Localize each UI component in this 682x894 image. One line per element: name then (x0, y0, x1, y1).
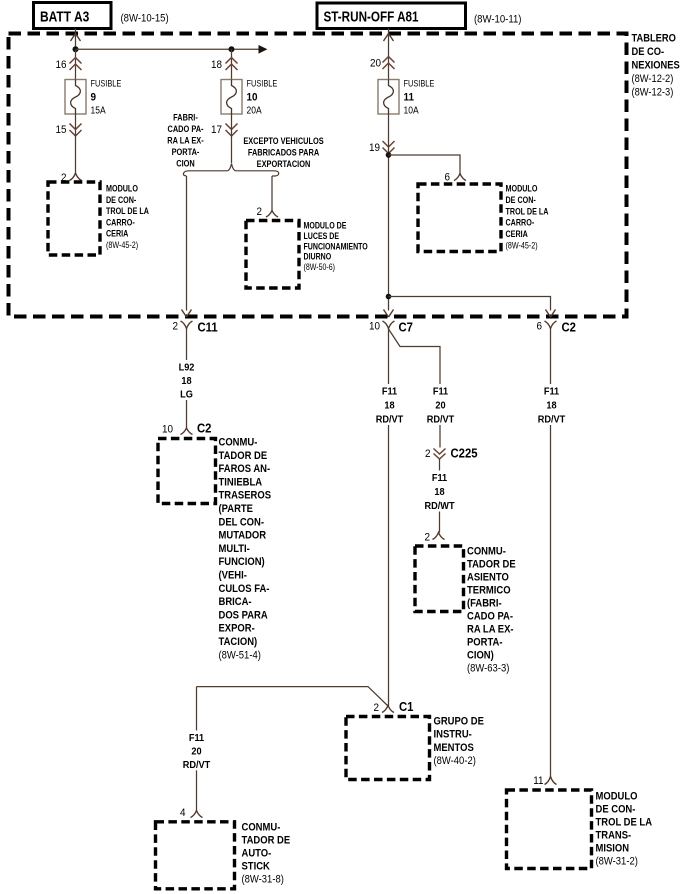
svg-text:CADO PA-: CADO PA- (167, 123, 203, 134)
svg-text:11: 11 (533, 776, 543, 788)
pin 16 (55, 58, 81, 72)
svg-text:CONMU-: CONMU- (242, 822, 281, 834)
svg-text:(8W-51-4): (8W-51-4) (219, 650, 261, 662)
svg-text:CULOS FA-: CULOS FA- (219, 583, 270, 595)
connector box BATT A3 (34, 3, 112, 29)
svg-text:20: 20 (191, 746, 201, 757)
pin 2 heated seat switch (424, 532, 444, 544)
pin 18 (211, 58, 238, 72)
svg-text:C1: C1 (399, 699, 414, 714)
svg-text:FUSIBLE: FUSIBLE (247, 78, 278, 89)
arrow into junction block from ST-RUN-OFF (384, 34, 394, 42)
connector C2 fog lamp switch pin 10 (162, 421, 212, 436)
junction dot right BCM tap (386, 152, 392, 158)
svg-text:F11: F11 (432, 473, 448, 484)
svg-text:18: 18 (434, 487, 445, 498)
module box MODULO DE LUCES DIURNO (246, 221, 299, 289)
svg-text:6: 6 (444, 172, 450, 184)
label TABLERO DE CONEXIONES (632, 33, 680, 99)
svg-text:11: 11 (404, 92, 415, 104)
wire branch to connector C2 right (389, 297, 551, 311)
label fabricado para la exportacion (167, 112, 204, 169)
svg-text:EXPOR-: EXPOR- (219, 623, 255, 635)
svg-text:2: 2 (424, 532, 430, 544)
svg-text:PORTA-: PORTA- (172, 146, 200, 157)
svg-text:RA LA EX-: RA LA EX- (167, 135, 204, 146)
svg-text:TADOR DE: TADOR DE (219, 450, 268, 462)
svg-text:MULTI-: MULTI- (219, 543, 250, 555)
svg-text:STICK: STICK (242, 861, 271, 873)
svg-text:RD/WT: RD/WT (424, 501, 454, 512)
svg-text:C225: C225 (451, 446, 478, 461)
svg-text:(8W-40-2): (8W-40-2) (434, 755, 476, 767)
svg-text:PORTA-: PORTA- (467, 637, 503, 649)
svg-text:DE CON-: DE CON- (106, 195, 137, 205)
wire branch to right BCM pin 6 (389, 155, 461, 174)
label grupo de instrumentos (434, 716, 485, 767)
svg-text:DE CON-: DE CON- (596, 804, 636, 816)
wire C2 to transmission control module (550, 329, 552, 777)
wire autostick vertical (196, 687, 198, 811)
module box GRUPO DE INSTRUMENTOS (346, 717, 430, 780)
pin 17 (211, 124, 238, 137)
svg-text:LUCES DE: LUCES DE (304, 231, 340, 241)
svg-text:10A: 10A (404, 105, 420, 116)
svg-text:F11: F11 (189, 733, 205, 744)
svg-text:20: 20 (370, 58, 381, 70)
svg-text:C2: C2 (562, 320, 577, 335)
wire fuse F9 to body control module (75, 114, 77, 173)
svg-text:10: 10 (162, 424, 173, 436)
svg-text:20A: 20A (247, 105, 263, 116)
svg-text:6: 6 (536, 321, 542, 333)
svg-text:L92: L92 (179, 362, 195, 373)
svg-text:(FABRI-: (FABRI- (467, 598, 502, 610)
svg-text:CION): CION) (467, 650, 494, 662)
svg-text:FUNCION): FUNCION) (219, 557, 265, 569)
svg-text:9: 9 (91, 92, 97, 104)
svg-text:BATT A3: BATT A3 (40, 8, 90, 25)
svg-text:RD/VT: RD/VT (376, 414, 404, 425)
pin 2 left body control module (61, 173, 82, 185)
wire export branch to C11 (186, 176, 188, 311)
pin 15 (55, 124, 81, 137)
label modulo de control de la transmision (596, 791, 653, 868)
svg-text:18: 18 (181, 376, 192, 387)
svg-text:RA LA EX-: RA LA EX- (467, 624, 514, 636)
svg-text:FUSIBLE: FUSIBLE (91, 78, 122, 89)
svg-text:TRANS-: TRANS- (596, 830, 632, 842)
pin 11 transmission control module (533, 776, 556, 788)
svg-text:18: 18 (546, 400, 557, 411)
wire C225 to heated seat switch (439, 459, 441, 533)
arrow into border at C7 (384, 310, 394, 318)
wire fuse F10 to split (231, 114, 233, 163)
svg-text:20: 20 (435, 400, 445, 411)
svg-text:CARRO-: CARRO- (506, 218, 535, 228)
svg-text:TROL DE LA: TROL DE LA (506, 207, 549, 217)
label wire F11 18 RD/WT (423, 471, 457, 513)
svg-text:TRASEROS: TRASEROS (219, 490, 272, 502)
svg-text:TADOR DE: TADOR DE (467, 559, 516, 571)
svg-text:17: 17 (211, 125, 222, 137)
label wire F11 18 RD/VT tcm (535, 384, 569, 426)
svg-text:F11: F11 (382, 386, 398, 397)
svg-text:2: 2 (172, 321, 178, 333)
arrow right at bus A3 end (259, 45, 268, 54)
label wire F11 20 RD/VT seat (424, 384, 458, 426)
module box MODULO DE CONTROL DE LA CARROCERIA right (418, 184, 501, 252)
svg-text:ST-RUN-OFF A81: ST-RUN-OFF A81 (324, 8, 419, 25)
label wire F11 20 RD/VT autostick (180, 731, 214, 771)
svg-text:FABRI-: FABRI- (173, 112, 198, 123)
wire C7 to instrument cluster C1 (388, 329, 390, 707)
connector C11 (172, 320, 217, 335)
svg-text:(8W-31-2): (8W-31-2) (596, 856, 638, 868)
wire to daytime running lamp module (271, 176, 273, 211)
arrow into junction block from BATT A3 (71, 34, 81, 42)
pin 4 autostick switch (180, 808, 203, 820)
svg-text:RD/VT: RD/VT (538, 414, 566, 425)
svg-text:DIURNO: DIURNO (304, 252, 332, 262)
svg-text:(8W-12-2): (8W-12-2) (632, 73, 674, 85)
connector C225 (425, 446, 478, 461)
svg-text:MENTOS: MENTOS (434, 742, 474, 754)
svg-text:15A: 15A (91, 105, 107, 116)
svg-text:LG: LG (180, 389, 193, 400)
pin 19 (369, 141, 395, 154)
svg-text:CARRO-: CARRO- (106, 218, 135, 228)
svg-text:TROL DE LA: TROL DE LA (596, 817, 653, 829)
fuse F9 15A (65, 78, 122, 116)
wire bus to fuse F9 (75, 49, 77, 79)
connector C1 instrument cluster pin 2 (373, 699, 413, 714)
svg-text:MODULO: MODULO (506, 184, 538, 194)
svg-text:18: 18 (211, 60, 222, 72)
label modulo de control de la carroceria right (506, 184, 549, 251)
label modulo de luces diurno (304, 221, 368, 273)
wire L92 to fog lamp switch (186, 329, 188, 429)
svg-text:(8W-12-3): (8W-12-3) (632, 87, 674, 99)
wire fuse F11 down to border (388, 114, 390, 311)
svg-text:(PARTE: (PARTE (219, 503, 254, 515)
svg-text:18: 18 (384, 400, 395, 411)
svg-text:15: 15 (55, 125, 66, 137)
fuse F11 10A (378, 78, 435, 116)
svg-text:F11: F11 (433, 386, 449, 397)
label conmutador de auto-stick (242, 822, 291, 886)
label (8W-10-11) (474, 14, 521, 26)
svg-text:FABRICADOS PARA: FABRICADOS PARA (248, 147, 319, 158)
svg-text:(8W-50-6): (8W-50-6) (304, 262, 336, 272)
arrow into border at C11 (182, 310, 192, 318)
svg-text:BRICA-: BRICA- (219, 597, 252, 609)
switch box CONMUTADOR DE ASIENTO TERMICO (415, 546, 464, 612)
fuse F10 20A (221, 78, 278, 116)
svg-text:(8W-31-8): (8W-31-8) (242, 874, 284, 886)
module box MODULO DE CONTROL DE LA TRANSMISION (507, 790, 592, 869)
wire ST-RUN-OFF feed (388, 29, 390, 80)
svg-text:C7: C7 (399, 320, 414, 335)
svg-text:TABLERO: TABLERO (632, 33, 676, 45)
svg-text:C2: C2 (197, 421, 212, 436)
arrow into border at C2 right (546, 310, 556, 318)
svg-text:TROL DE LA: TROL DE LA (106, 206, 149, 216)
svg-text:DEL CON-: DEL CON- (219, 517, 265, 529)
svg-text:MODULO: MODULO (106, 184, 138, 194)
svg-text:C11: C11 (198, 320, 218, 335)
svg-text:RD/VT: RD/VT (183, 759, 211, 770)
svg-text:16: 16 (55, 60, 66, 72)
svg-text:CADO PA-: CADO PA- (467, 611, 513, 623)
svg-text:ASIENTO: ASIENTO (467, 572, 509, 584)
svg-text:10: 10 (369, 321, 380, 333)
junction dot bus A3 fuse10 tap (229, 46, 235, 52)
label wire L92 18 LG (170, 360, 204, 401)
svg-text:FUNCIONAMIENTO: FUNCIONAMIENTO (304, 242, 368, 252)
svg-text:MODULO: MODULO (596, 791, 638, 803)
junction block TABLERO DE CONEXIONES dashed outline (9, 34, 627, 317)
svg-text:(8W-10-15): (8W-10-15) (121, 13, 169, 25)
svg-text:19: 19 (369, 143, 380, 155)
svg-text:DE CON-: DE CON- (506, 195, 537, 205)
wire diagonal branch C7 to C225 (389, 329, 441, 448)
split brace under fuse F10 (183, 164, 278, 177)
svg-text:TERMICO: TERMICO (467, 585, 511, 597)
svg-text:2: 2 (373, 703, 379, 715)
connector box ST-RUN-OFF A81 (317, 3, 466, 29)
svg-text:AUTO-: AUTO- (242, 848, 272, 860)
wire BATT A3 feed (75, 29, 77, 50)
pin 2 daytime running lamp module (256, 207, 278, 219)
svg-text:2: 2 (256, 207, 262, 219)
svg-text:2: 2 (425, 449, 431, 461)
svg-text:TACION): TACION) (219, 636, 258, 648)
svg-text:(8W-45-2): (8W-45-2) (106, 240, 138, 250)
svg-text:CERIA: CERIA (106, 229, 128, 239)
pin 6 right body control module (444, 172, 466, 184)
connector C2 right (536, 320, 576, 335)
pin 20 (370, 57, 395, 70)
svg-text:RD/VT: RD/VT (427, 414, 455, 425)
svg-text:TADOR DE: TADOR DE (242, 835, 291, 847)
svg-text:CONMU-: CONMU- (219, 437, 258, 449)
svg-text:MODULO DE: MODULO DE (304, 221, 347, 231)
svg-text:10: 10 (247, 92, 258, 104)
wire bus A3 horizontal (76, 48, 260, 50)
svg-text:MUTADOR: MUTADOR (219, 530, 267, 542)
wire autostick branch horizontal (197, 687, 389, 706)
svg-text:INSTRU-: INSTRU- (434, 729, 472, 741)
svg-text:(8W-45-2): (8W-45-2) (506, 241, 538, 251)
svg-text:FAROS AN-: FAROS AN- (219, 464, 271, 476)
svg-text:GRUPO DE: GRUPO DE (434, 716, 485, 728)
label modulo de control de la carroceria left (106, 184, 149, 250)
label excepto vehiculos fabricados (243, 135, 324, 169)
svg-text:CION: CION (176, 158, 194, 169)
svg-text:(8W-63-3): (8W-63-3) (467, 663, 509, 675)
svg-text:EXCEPTO VEHICULOS: EXCEPTO VEHICULOS (243, 135, 324, 146)
label conmutador de asiento termico (467, 546, 516, 675)
svg-text:EXPORTACION: EXPORTACION (257, 158, 311, 169)
junction dot C2 tap (386, 294, 392, 300)
label wire F11 18 RD/VT cluster (373, 384, 407, 426)
svg-text:CERIA: CERIA (506, 229, 528, 239)
junction dot bus A3 left (73, 46, 79, 52)
svg-text:FUSIBLE: FUSIBLE (404, 78, 435, 89)
svg-text:4: 4 (180, 808, 186, 820)
svg-text:F11: F11 (544, 386, 560, 397)
module box MODULO DE CONTROL DE LA CARROCERIA left (48, 182, 100, 255)
wire bus to fuse F10 (231, 49, 233, 79)
switch box CONMUTADOR DE FAROS ANTINIEBLA (158, 439, 216, 504)
svg-text:NEXIONES: NEXIONES (632, 60, 680, 72)
label (8W-10-15) (121, 13, 169, 25)
label conmutador de faros antiniebla (219, 437, 272, 662)
svg-text:(VEHI-: (VEHI- (219, 570, 247, 582)
svg-text:MISION: MISION (596, 843, 630, 855)
svg-text:(8W-10-11): (8W-10-11) (474, 14, 521, 26)
switch box CONMUTADOR DE AUTO-STICK (156, 822, 235, 889)
svg-text:DOS PARA: DOS PARA (219, 610, 269, 622)
connector C7 (369, 320, 413, 335)
svg-text:TINIEBLA: TINIEBLA (219, 477, 263, 489)
svg-text:CONMU-: CONMU- (467, 546, 506, 558)
svg-text:DE CO-: DE CO- (632, 46, 665, 58)
